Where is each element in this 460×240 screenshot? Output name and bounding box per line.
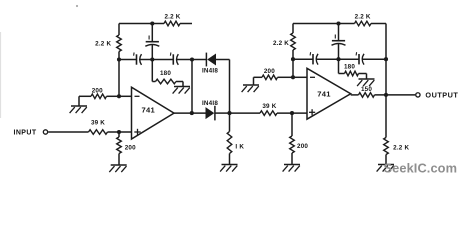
svg-text:2.2 K: 2.2 K bbox=[95, 41, 111, 48]
svg-text:180: 180 bbox=[344, 64, 355, 71]
svg-text:39 K: 39 K bbox=[91, 119, 105, 126]
svg-text:2.2 K: 2.2 K bbox=[273, 40, 289, 47]
svg-text:741: 741 bbox=[317, 89, 331, 98]
svg-text:INPUT: INPUT bbox=[14, 130, 37, 137]
svg-text:200: 200 bbox=[297, 143, 308, 150]
svg-text:2.2 K: 2.2 K bbox=[164, 14, 180, 21]
svg-text:200: 200 bbox=[264, 68, 275, 75]
svg-text:2.2 K: 2.2 K bbox=[393, 144, 409, 151]
svg-text:200: 200 bbox=[125, 144, 136, 151]
svg-text:741: 741 bbox=[142, 106, 156, 115]
svg-text:39 K: 39 K bbox=[262, 103, 276, 110]
svg-text:180: 180 bbox=[160, 70, 171, 77]
svg-text:OUTPUT: OUTPUT bbox=[425, 91, 458, 100]
svg-text:IN4I8: IN4I8 bbox=[202, 100, 218, 107]
svg-text:IN4I8: IN4I8 bbox=[202, 67, 218, 74]
svg-text:2.2 K: 2.2 K bbox=[355, 14, 371, 21]
svg-text:I K: I K bbox=[235, 143, 244, 150]
svg-text:150: 150 bbox=[361, 86, 372, 93]
svg-text:SeekIC.com: SeekIC.com bbox=[384, 161, 458, 176]
svg-text:200: 200 bbox=[92, 88, 103, 95]
